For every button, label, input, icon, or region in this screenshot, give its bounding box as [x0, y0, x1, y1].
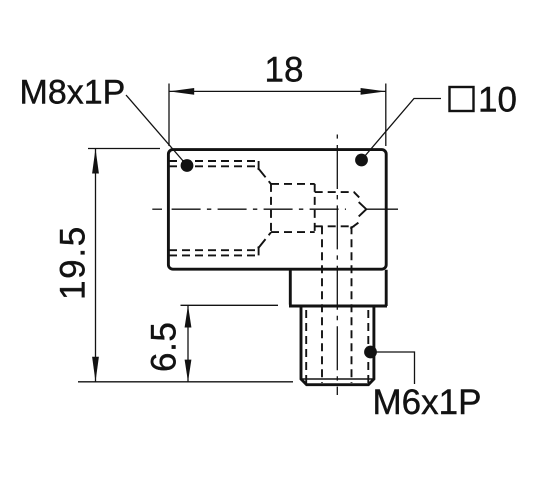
dimension 6.5: top arrowhead [185, 305, 192, 327]
dimension 6.5: dimension line [187, 305, 189, 382]
leader square-10: dot [355, 154, 368, 167]
horizontal centerline (solid segment through drill tip and body edge) [366, 208, 398, 210]
svg-text:18: 18 [265, 51, 304, 90]
drill point cone hidden lines [350, 192, 359, 229]
dimension 6.5: bottom arrowhead [185, 360, 192, 382]
dimension 19.5: top arrowhead [92, 149, 99, 174]
stud thread run-out line [301, 378, 374, 380]
stud thread minor diameter hidden lines [305, 310, 307, 383]
M8 thread hidden lines (major diameter, bottom) [169, 254, 259, 256]
leader M8x1P: dot [181, 159, 194, 172]
M8 thread hidden lines (minor diameter, top) [169, 165, 256, 167]
M8 thread hidden lines (minor diameter, bottom) [169, 249, 256, 251]
svg-text:M8x1P: M8x1P [20, 74, 126, 112]
svg-text:10: 10 [478, 81, 517, 120]
dimension 19.5: top extension line [88, 148, 160, 150]
dimension 19.5: dimension line [95, 149, 97, 382]
drill point tip chevron [359, 202, 367, 216]
svg-text:M6x1P: M6x1P [373, 383, 482, 422]
dimension 18: extension line left [168, 84, 170, 147]
dimension 19.5: bottom arrowhead [92, 357, 99, 382]
leader M6x1P: polyline [371, 352, 415, 384]
dimension 18: extension line right [385, 84, 387, 147]
dimension 6.5: top extension line [181, 304, 279, 306]
small drilled hole hidden lines [315, 192, 355, 226]
leader square-10: polyline [362, 99, 442, 161]
horizontal centerline (dashed part) [152, 208, 162, 210]
dimension 19.5: bottom extension line [78, 381, 293, 383]
M8 thread end vertical dashes [258, 161, 260, 255]
dimension 18: right arrowhead [361, 88, 386, 95]
body outline (square block 10, top view) [168, 150, 386, 270]
square symbol for 10 [450, 87, 474, 111]
step (hex/shoulder below body) [289, 270, 387, 306]
vertical through-hole hidden lines [321, 226, 323, 383]
M8 thread hidden lines (major diameter, top) [169, 160, 259, 162]
svg-text:19.5: 19.5 [54, 225, 93, 300]
M8 chamfer cone hidden lines [258, 168, 271, 249]
dimension 18: left arrowhead [169, 88, 194, 95]
vertical centerline [336, 135, 338, 139]
stud outline (M6 threaded stud) [301, 306, 374, 385]
leader M6x1P: dot [364, 346, 377, 359]
leader M8x1P: line [126, 95, 187, 166]
pilot hole hidden rectangle [271, 184, 315, 232]
svg-text:6.5: 6.5 [145, 322, 184, 372]
dimension 18: dimension line [169, 90, 386, 92]
